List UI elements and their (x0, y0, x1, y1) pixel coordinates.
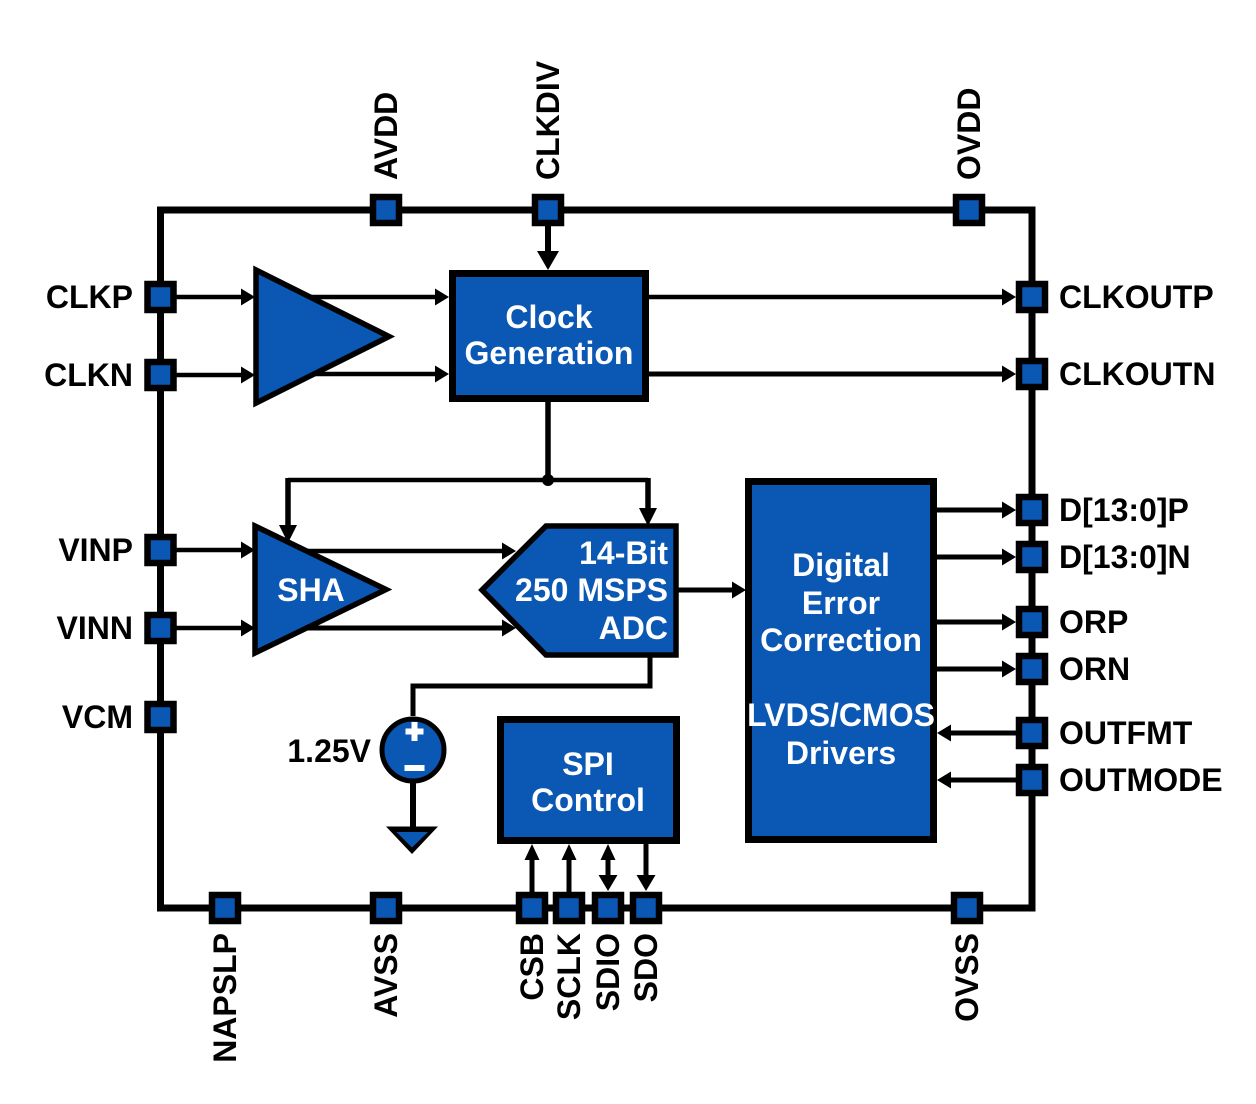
svg-text:CLKOUTP: CLKOUTP (1059, 279, 1214, 315)
wire SDO from SPI Control (637, 844, 656, 891)
svg-text:VINP: VINP (58, 532, 133, 568)
wire vref to ground (410, 781, 416, 827)
pin VINN (148, 615, 174, 641)
svg-text:OVDD: OVDD (951, 88, 987, 180)
label 1.25V (287, 733, 371, 769)
wire Clock Generation down to clock node (545, 402, 551, 480)
wire CLKDIV into Clock Generation (537, 226, 559, 270)
svg-text:OUTMODE: OUTMODE (1059, 762, 1223, 798)
pin AVDD (373, 197, 399, 223)
pin OUTMODE (1019, 767, 1045, 793)
svg-text:Clock: Clock (505, 299, 592, 335)
label D[13:0]N (1059, 539, 1191, 575)
ADC block 14-Bit 250 MSPS (482, 526, 676, 655)
svg-text:SCLK: SCLK (551, 933, 587, 1020)
wire OUTFMT to DEC (937, 725, 1016, 742)
svg-text:VCM: VCM (62, 699, 133, 735)
label VCM (62, 699, 133, 735)
svg-text:D[13:0]N: D[13:0]N (1059, 539, 1191, 575)
svg-text:ORP: ORP (1059, 604, 1128, 640)
wire clock down into ADC (639, 478, 657, 526)
svg-text:250 MSPS: 250 MSPS (515, 572, 668, 608)
wire clock feedback horizontal (288, 478, 648, 483)
pin OUTFMT (1019, 720, 1045, 746)
block SPI Control (501, 720, 677, 841)
label CLKN (44, 357, 133, 393)
pin NAPSLP (212, 895, 238, 921)
pin CLKN (148, 362, 174, 388)
label OVDD (951, 88, 987, 180)
label OVSS (949, 933, 985, 1022)
pin ORP (1019, 609, 1045, 635)
wire DEC to D[13:0]P (937, 502, 1016, 519)
label SDIO (590, 933, 626, 1011)
pin VCM (148, 704, 174, 730)
label AVSS (368, 933, 404, 1018)
pin VINP (148, 537, 174, 563)
svg-text:OUTFMT: OUTFMT (1059, 715, 1193, 751)
label D[13:0]P (1059, 492, 1189, 528)
wire CSB to SPI Control (525, 844, 540, 893)
svg-text:Drivers: Drivers (786, 735, 896, 771)
svg-text:Correction: Correction (760, 622, 922, 658)
pin SDIO (595, 895, 621, 921)
label SCLK (551, 933, 587, 1020)
pin CLKOUTN (1019, 361, 1045, 387)
svg-text:SDIO: SDIO (590, 933, 626, 1011)
outer chip border (161, 210, 1033, 908)
svg-text:ADC: ADC (599, 610, 668, 646)
pin OVSS (954, 895, 980, 921)
junction dot clock node (542, 474, 554, 486)
label NAPSLP (207, 933, 243, 1063)
svg-text:CLKN: CLKN (44, 357, 133, 393)
voltage source 1.25V (382, 719, 444, 781)
wire ADC to Digital Error Correction (676, 582, 746, 599)
label OUTFMT (1059, 715, 1193, 751)
pin CSB (519, 895, 545, 921)
label CLKOUTN (1059, 356, 1215, 392)
svg-text:SPI: SPI (562, 746, 614, 782)
label SDO (628, 933, 664, 1002)
svg-text:SHA: SHA (277, 572, 345, 608)
wire DEC to ORN (937, 661, 1016, 678)
wire Clock Generation to CLKOUTN (649, 366, 1016, 383)
clock input buffer amplifier (256, 270, 389, 403)
svg-text:SDO: SDO (628, 933, 664, 1002)
svg-text:D[13:0]P: D[13:0]P (1059, 492, 1189, 528)
wire SCLK to SPI Control (562, 844, 577, 893)
svg-text:Generation: Generation (465, 335, 634, 371)
pin D[13:0]P (1019, 497, 1045, 523)
svg-text:AVDD: AVDD (368, 92, 404, 180)
wire clock buffer to Clock Generation lower (300, 366, 449, 383)
label OUTMODE (1059, 762, 1223, 798)
svg-text:LVDS/CMOS: LVDS/CMOS (747, 697, 935, 733)
svg-text:CLKOUTN: CLKOUTN (1059, 356, 1215, 392)
svg-text:CSB: CSB (514, 933, 550, 1001)
svg-text:NAPSLP: NAPSLP (207, 933, 243, 1063)
label VINN (57, 610, 133, 646)
label CLKOUTP (1059, 279, 1214, 315)
wire clock buffer to Clock Generation upper (300, 289, 449, 306)
wire VINN to SHA (176, 620, 255, 637)
wire SHA to ADC lower (300, 620, 516, 637)
svg-text:CLKP: CLKP (46, 279, 133, 315)
wire OUTMODE to DEC (937, 772, 1016, 789)
label ORN (1059, 651, 1130, 687)
svg-text:VINN: VINN (57, 610, 133, 646)
pin SCLK (556, 895, 582, 921)
wire DEC to D[13:0]N (937, 549, 1016, 566)
pin ORN (1019, 656, 1045, 682)
label CSB (514, 933, 550, 1001)
svg-text:1.25V: 1.25V (287, 733, 371, 769)
block Digital Error Correction LVDS/CMOS Drivers (747, 482, 935, 840)
pin D[13:0]N (1019, 544, 1045, 570)
label VINP (58, 532, 133, 568)
svg-text:Control: Control (531, 782, 645, 818)
wire ADC bottom to voltage reference (413, 655, 650, 716)
svg-text:CLKDIV: CLKDIV (530, 60, 566, 180)
wire VINP to SHA (176, 542, 255, 559)
svg-text:AVSS: AVSS (368, 933, 404, 1018)
pin CLKP (148, 284, 174, 310)
wire SDIO bidirectional (599, 844, 618, 891)
svg-text:Error: Error (802, 585, 880, 621)
wire SHA to ADC upper (300, 543, 516, 560)
pin SDO (633, 895, 659, 921)
wire clock down into SHA (279, 478, 297, 543)
label CLKP (46, 279, 133, 315)
svg-text:OVSS: OVSS (949, 933, 985, 1022)
svg-text:Digital: Digital (792, 547, 890, 583)
ground (386, 827, 438, 855)
wire CLKP to clock buffer (176, 289, 255, 306)
label CLKDIV (530, 60, 566, 180)
wire CLKN to clock buffer (176, 367, 255, 384)
pin CLKDIV (535, 197, 561, 223)
pin AVSS (373, 895, 399, 921)
wire Clock Generation to CLKOUTP (649, 289, 1016, 306)
SHA amplifier (255, 526, 386, 653)
label AVDD (368, 92, 404, 180)
svg-text:ORN: ORN (1059, 651, 1130, 687)
wire DEC to ORP (937, 614, 1016, 631)
pin OVDD (956, 197, 982, 223)
label ORP (1059, 604, 1128, 640)
block Clock Generation U1 (453, 274, 646, 399)
svg-text:14-Bit: 14-Bit (579, 535, 668, 571)
pin CLKOUTP (1019, 284, 1045, 310)
